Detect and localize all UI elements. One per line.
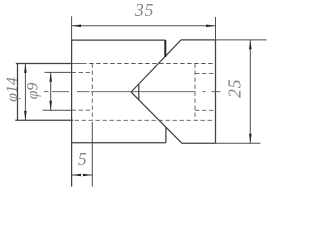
dim 35 arrow right xyxy=(206,25,215,28)
bottom notch stroke xyxy=(165,127,167,143)
dim phi14 line xyxy=(24,64,26,121)
block bottom edge left part xyxy=(72,142,166,144)
dim 5 arrow left xyxy=(72,174,81,177)
dim 5 extension left xyxy=(71,143,73,187)
hidden right recess wall xyxy=(194,64,196,121)
svg-text:φ9: φ9 xyxy=(24,83,41,100)
cone tip lower edge xyxy=(131,92,139,100)
dim 35 extension line left xyxy=(71,16,73,40)
dim phi9 arrow up xyxy=(49,72,52,81)
block bottom edge right part xyxy=(182,142,216,144)
boss left face (phi14 cylinder end) xyxy=(17,64,19,121)
dim phi9 line xyxy=(50,72,52,110)
hidden counterbore step xyxy=(91,64,93,121)
hidden line phi14 bottom xyxy=(75,119,216,121)
dim phi14 arrow down xyxy=(24,111,27,120)
dim 5 line xyxy=(72,174,93,176)
svg-text:35: 35 xyxy=(134,0,154,20)
dim phi14 arrow up xyxy=(24,64,27,73)
block right face xyxy=(215,40,217,143)
hidden line phi9 bottom left xyxy=(72,109,93,111)
hidden line phi9 top left xyxy=(72,71,93,73)
block top edge right part xyxy=(181,39,216,41)
top notch thick stroke xyxy=(164,40,166,57)
svg-text:φ14: φ14 xyxy=(4,77,21,102)
dim 5 arrow right xyxy=(83,174,92,177)
hidden right bore top xyxy=(195,72,216,74)
hidden right bore bottom xyxy=(195,109,216,111)
cone tip upper edge xyxy=(131,84,139,92)
dim 25 extension top xyxy=(216,39,267,41)
block left face xyxy=(71,40,73,143)
dim 25 line xyxy=(249,40,251,143)
dim phi9 extension bottom xyxy=(43,109,72,111)
dim 25 arrow up xyxy=(249,40,252,49)
dim 35 extension line right xyxy=(215,17,217,40)
dim 35 arrow left xyxy=(72,25,81,28)
center axis line xyxy=(44,91,221,93)
dim 25 extension bottom xyxy=(216,142,261,144)
boss top edge xyxy=(16,63,72,65)
dim 25 arrow down xyxy=(249,134,252,143)
svg-text:25: 25 xyxy=(225,79,245,98)
svg-text:5: 5 xyxy=(78,149,87,169)
dim 5 extension right xyxy=(91,122,93,187)
dim phi9 extension top xyxy=(45,71,72,73)
dim phi9 arrow down xyxy=(49,101,52,110)
boss bottom edge xyxy=(15,119,73,121)
cone upper 45deg edge xyxy=(139,40,181,84)
cone tip base xyxy=(138,84,140,100)
cone lower 45deg edge xyxy=(139,100,182,143)
hidden line phi14 top xyxy=(89,63,215,65)
dim 35 line xyxy=(72,25,216,27)
hidden line phi14 top lead xyxy=(72,63,87,65)
block top edge left part xyxy=(72,39,166,41)
